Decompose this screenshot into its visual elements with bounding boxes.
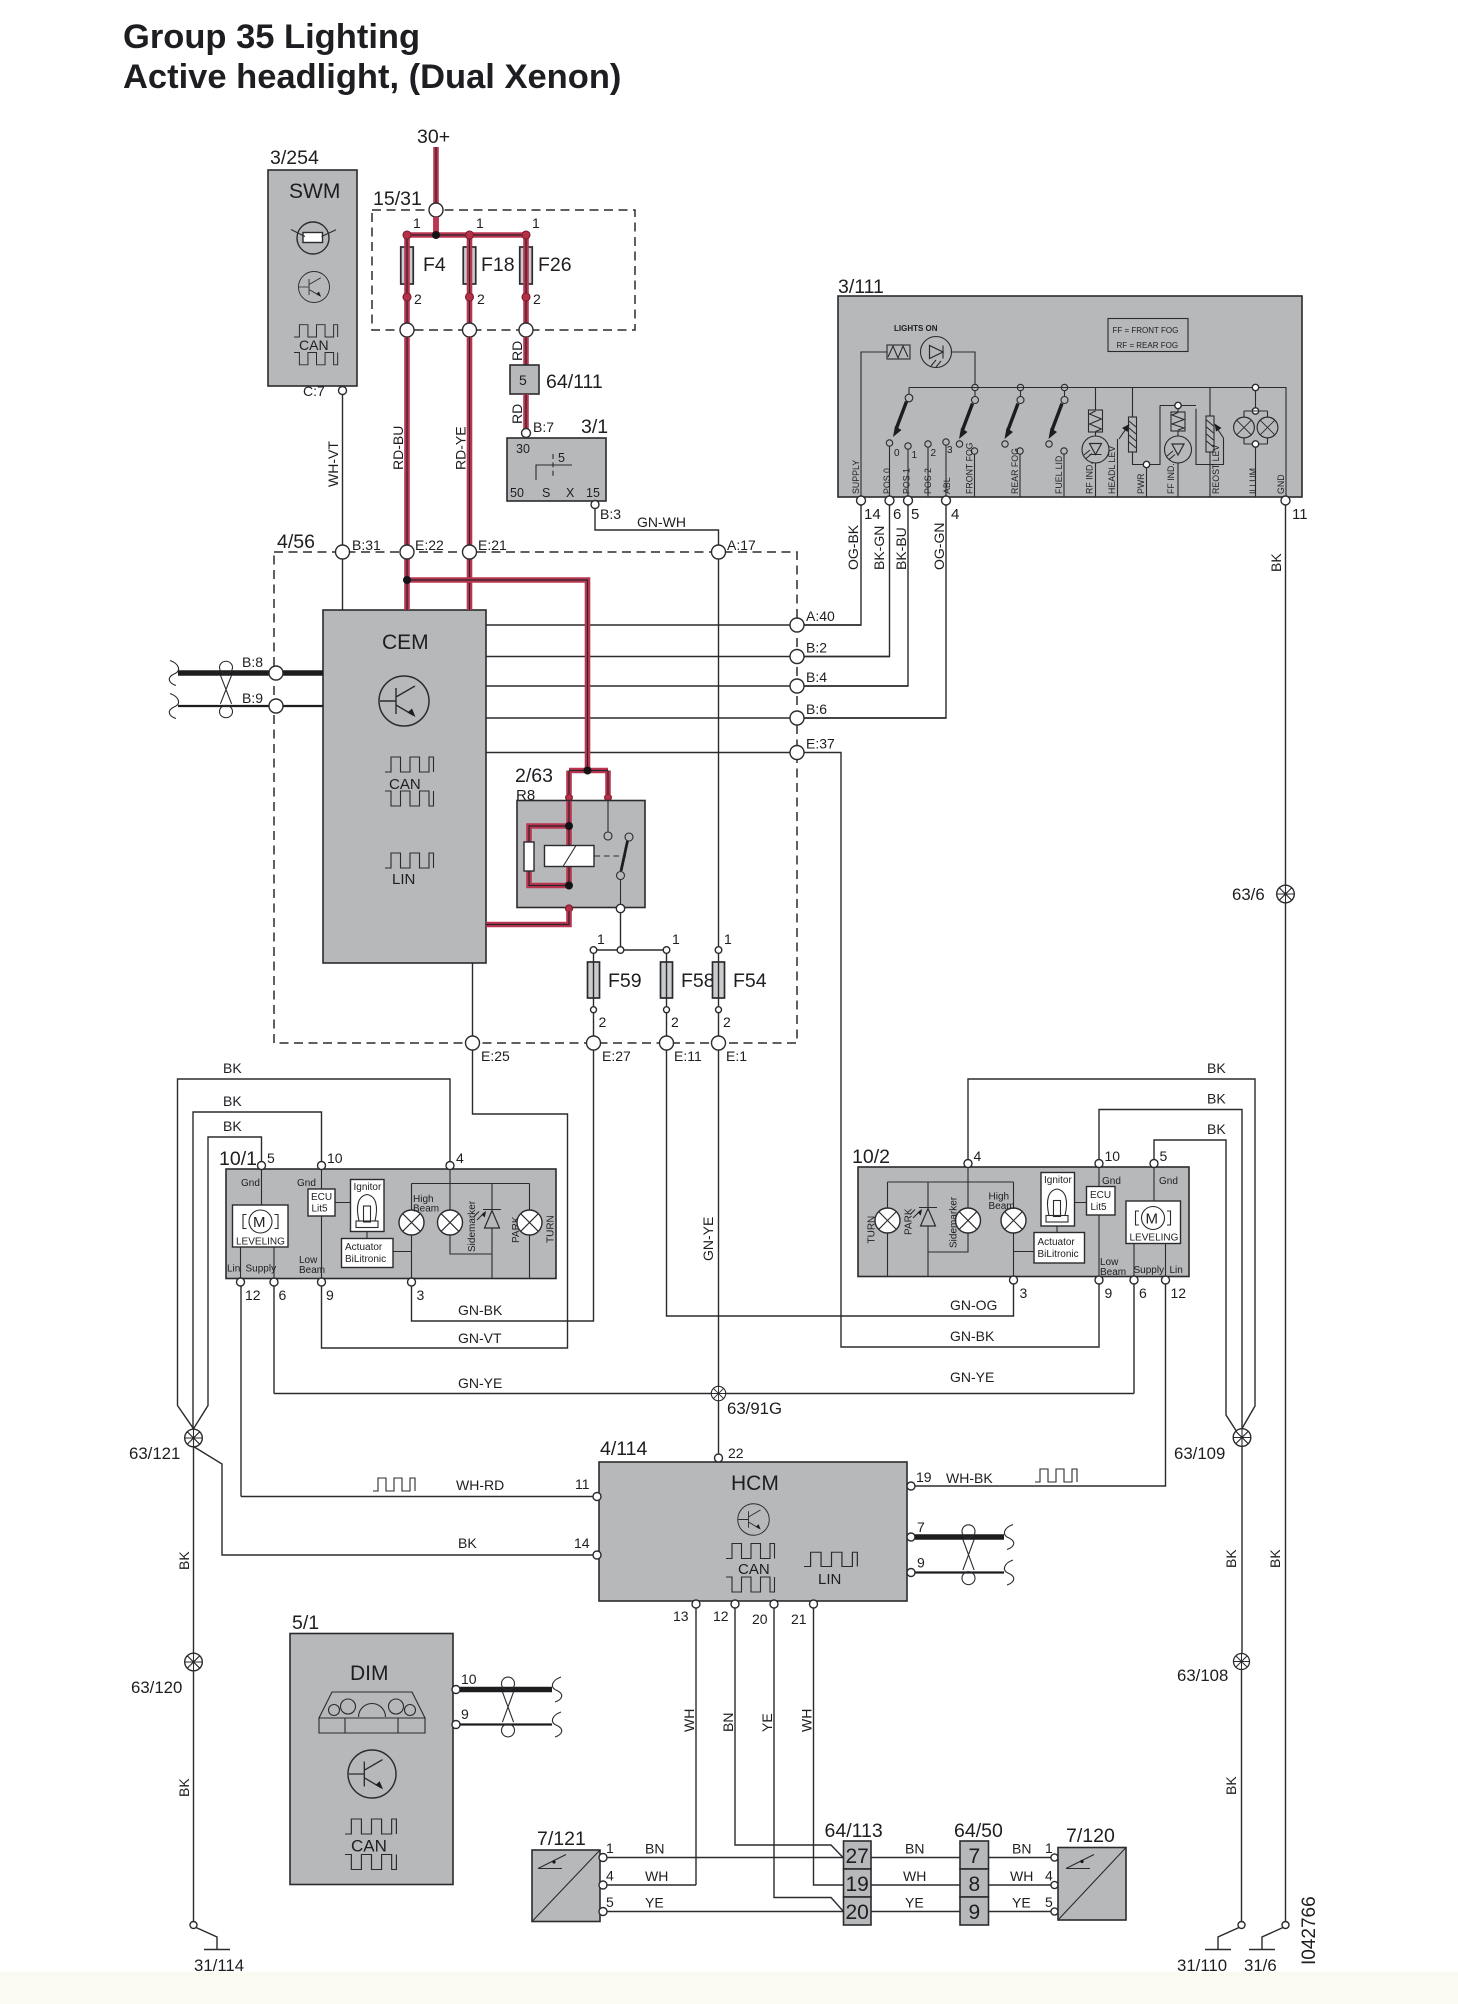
- svg-text:Gnd: Gnd: [1159, 1176, 1178, 1187]
- svg-text:63/6: 63/6: [1232, 885, 1265, 904]
- fuse F54: [713, 962, 725, 998]
- svg-text:1: 1: [476, 215, 484, 231]
- node E:25: [466, 1036, 480, 1050]
- svg-text:BN: BN: [720, 1713, 736, 1732]
- svg-text:5: 5: [519, 372, 527, 388]
- svg-text:Lin: Lin: [1170, 1265, 1183, 1276]
- park diode: [483, 1209, 501, 1211]
- svg-text:CAN: CAN: [351, 1837, 387, 1856]
- svg-text:3/254: 3/254: [270, 147, 319, 169]
- svg-text:B:3: B:3: [600, 506, 621, 522]
- svg-text:12: 12: [245, 1287, 261, 1303]
- svg-text:5: 5: [558, 451, 565, 465]
- wire WH-VT from SWM C:7 to CEM B:31: [342, 395, 344, 546]
- svg-text:YE: YE: [1012, 1895, 1031, 1911]
- junction 63/120: [185, 1653, 203, 1671]
- svg-text:RF IND.: RF IND.: [1085, 462, 1095, 494]
- CEM CAN symbol: [385, 757, 434, 772]
- svg-text:B:6: B:6: [806, 701, 827, 717]
- svg-text:4/56: 4/56: [277, 531, 315, 553]
- wire RD-YE F18 to E:21: [467, 337, 473, 545]
- switch SUPPLY/POS: [908, 388, 910, 395]
- headlamp right 10/2: [852, 1146, 1189, 1278]
- fuse F26: [520, 247, 533, 284]
- svg-text:21: 21: [791, 1611, 807, 1627]
- svg-text:E:21: E:21: [478, 537, 507, 553]
- svg-text:9: 9: [969, 1901, 981, 1924]
- svg-text:2: 2: [723, 1014, 731, 1030]
- svg-text:1: 1: [1045, 1840, 1053, 1856]
- node E:37: [790, 746, 804, 760]
- svg-text:GN-OG: GN-OG: [950, 1297, 997, 1313]
- node B:31: [336, 545, 350, 559]
- node E:11: [660, 1036, 674, 1050]
- svg-text:X: X: [566, 486, 575, 500]
- svg-text:5: 5: [1045, 1894, 1053, 1910]
- svg-text:B:9: B:9: [242, 690, 263, 706]
- svg-text:50: 50: [510, 486, 524, 500]
- svg-text:GN-VT: GN-VT: [458, 1330, 502, 1346]
- CEM LIN symbol: [385, 853, 434, 868]
- SWM CAN symbol: [294, 325, 338, 337]
- FF/RF legend box: [1108, 319, 1188, 352]
- svg-text:BN: BN: [645, 1841, 664, 1857]
- HCM bottom pins: [692, 1600, 700, 1608]
- DIM transistor icon: [348, 1750, 396, 1798]
- svg-text:1: 1: [532, 215, 540, 231]
- svg-text:22: 22: [728, 1445, 744, 1461]
- wire RD-BU F4 to E:22: [404, 337, 410, 545]
- svg-text:64/113: 64/113: [825, 1820, 883, 1842]
- svg-text:Sidemarker: Sidemarker: [467, 1200, 478, 1252]
- svg-text:BN: BN: [1012, 1841, 1031, 1857]
- position sensor 7/121: [532, 1828, 600, 1922]
- svg-text:BK: BK: [176, 1778, 192, 1797]
- svg-text:E:1: E:1: [726, 1048, 747, 1064]
- connector 64/111 pin 5: [510, 365, 539, 394]
- red wire relay to CEM: [486, 911, 569, 925]
- svg-text:F58: F58: [681, 970, 715, 992]
- svg-text:Actuator: Actuator: [345, 1242, 383, 1253]
- svg-text:SWM: SWM: [289, 180, 340, 203]
- ground wires BK left headlamp: [178, 1079, 451, 1429]
- Actuator BiLitronic box: [1034, 1233, 1085, 1264]
- turn lamp: [875, 1208, 900, 1233]
- ground 31/114: [190, 1922, 230, 1950]
- svg-text:BK: BK: [1207, 1121, 1226, 1137]
- relay coil red loop: [529, 801, 569, 886]
- svg-text:HCM: HCM: [731, 1472, 779, 1495]
- svg-text:PWR: PWR: [1136, 473, 1146, 494]
- wire BN 7/121 to 64/113: [607, 1857, 844, 1859]
- svg-text:LIN: LIN: [818, 1571, 841, 1588]
- svg-text:Gnd: Gnd: [241, 1178, 260, 1189]
- svg-text:WH-RD: WH-RD: [456, 1477, 504, 1493]
- node E:21: [463, 545, 477, 559]
- svg-text:19: 19: [916, 1469, 932, 1485]
- svg-text:20: 20: [846, 1901, 869, 1924]
- DIM module 5/1: [290, 1612, 453, 1885]
- wire BK to HCM 14: [194, 1447, 594, 1556]
- ECU Lit5 box: [1087, 1187, 1116, 1216]
- svg-text:BK: BK: [1268, 553, 1284, 572]
- svg-text:BK: BK: [223, 1118, 242, 1134]
- twisted pair B:8/B:9: [169, 654, 323, 719]
- wire E:37 to right headlamp low beam: [804, 753, 1099, 1348]
- svg-text:B:2: B:2: [806, 640, 827, 656]
- svg-text:2: 2: [533, 291, 541, 307]
- svg-text:6: 6: [893, 506, 901, 523]
- sidemarker lamp: [956, 1208, 981, 1233]
- svg-text:14: 14: [574, 1535, 590, 1551]
- svg-text:GN-YE: GN-YE: [950, 1369, 994, 1385]
- wire BK pin11 down right side: [1285, 505, 1287, 1921]
- svg-text:E:25: E:25: [481, 1048, 510, 1064]
- svg-text:FF = FRONT FOG: FF = FRONT FOG: [1113, 326, 1179, 335]
- relay bottom pins: [565, 905, 572, 912]
- svg-text:S: S: [542, 486, 550, 500]
- svg-text:LEVELING: LEVELING: [236, 1237, 285, 1248]
- svg-text:5: 5: [267, 1150, 275, 1166]
- node E:22: [400, 545, 414, 559]
- wire RD 64/111 to 3/1 B:7: [523, 394, 529, 429]
- svg-text:OG-GN: OG-GN: [931, 523, 947, 570]
- node B:4: [790, 679, 804, 693]
- fuse F18: [463, 247, 476, 284]
- svg-text:15/31: 15/31: [373, 188, 422, 210]
- svg-text:POS 2: POS 2: [923, 468, 933, 494]
- svg-text:FF IND.: FF IND.: [1166, 463, 1176, 494]
- switch REAR FOG: [1017, 384, 1023, 390]
- wire WH-BK lin right: [915, 1284, 1166, 1486]
- wire OG-BK pin14 to A:40: [804, 505, 861, 625]
- svg-text:F4: F4: [423, 254, 446, 276]
- high beam lamp: [399, 1210, 424, 1235]
- svg-text:10: 10: [461, 1671, 477, 1687]
- svg-text:3: 3: [1020, 1285, 1028, 1301]
- node B:8: [269, 666, 283, 680]
- svg-text:B:7: B:7: [533, 419, 554, 435]
- junction 63/91G: [711, 1386, 725, 1400]
- svg-text:C:7: C:7: [303, 383, 325, 399]
- svg-text:CEM: CEM: [382, 631, 429, 654]
- svg-text:4: 4: [456, 1150, 464, 1166]
- svg-text:9: 9: [917, 1555, 925, 1571]
- svg-text:BK: BK: [458, 1535, 477, 1551]
- svg-text:E:37: E:37: [806, 736, 835, 752]
- svg-text:31/110: 31/110: [1177, 1956, 1227, 1975]
- wire WH-RD lin left: [241, 1286, 593, 1497]
- svg-text:1: 1: [672, 931, 680, 947]
- svg-text:RD: RD: [509, 341, 525, 361]
- wire WH 7/121 to HCM 13: [607, 1884, 696, 1886]
- node B:2: [790, 650, 804, 664]
- svg-text:B:4: B:4: [806, 669, 827, 685]
- svg-text:BK: BK: [1223, 1549, 1239, 1568]
- fuse F4: [401, 247, 414, 284]
- red wire CEM feed to relay 2/63: [407, 580, 608, 794]
- svg-text:2: 2: [414, 291, 422, 307]
- svg-text:RD-BU: RD-BU: [390, 426, 406, 470]
- svg-text:E:22: E:22: [415, 537, 444, 553]
- DIM CAN symbol: [345, 1819, 396, 1834]
- svg-text:F18: F18: [481, 254, 515, 276]
- svg-text:A:40: A:40: [806, 608, 835, 624]
- svg-text:WH: WH: [645, 1868, 668, 1884]
- wire E:27 to high beam left (GN-BK): [412, 1050, 594, 1321]
- svg-text:E:11: E:11: [674, 1048, 702, 1064]
- svg-text:10: 10: [327, 1150, 343, 1166]
- svg-text:2: 2: [599, 1014, 607, 1030]
- svg-text:BK: BK: [223, 1060, 242, 1076]
- svg-text:E:27: E:27: [602, 1048, 631, 1064]
- fuse bottom pins: [407, 246, 526, 323]
- HCM module 4/114: [599, 1438, 907, 1601]
- svg-text:1: 1: [912, 450, 918, 461]
- svg-text:2/63: 2/63: [515, 765, 553, 787]
- relay 2/63 R8: [515, 765, 645, 908]
- svg-text:RD: RD: [509, 404, 525, 424]
- svg-text:WH-BK: WH-BK: [946, 1470, 993, 1486]
- internal ground bus: [909, 388, 1286, 498]
- svg-text:WH: WH: [903, 1868, 926, 1884]
- svg-text:LIGHTS ON: LIGHTS ON: [894, 324, 938, 333]
- svg-text:TURN: TURN: [546, 1215, 557, 1243]
- svg-text:3/1: 3/1: [581, 416, 608, 438]
- node B:6: [790, 711, 804, 725]
- relay resistor: [524, 842, 534, 871]
- svg-text:BK: BK: [223, 1093, 242, 1109]
- svg-text:BiLitronic: BiLitronic: [345, 1254, 386, 1265]
- svg-text:11: 11: [1292, 506, 1308, 523]
- Actuator BiLitronic box: [342, 1239, 394, 1268]
- svg-text:ABL: ABL: [942, 477, 952, 494]
- switch FRONT FOG: [972, 384, 978, 390]
- red wire RD-BU E:22 into CEM: [404, 559, 410, 610]
- svg-text:Lin: Lin: [227, 1264, 240, 1275]
- relay switch: [607, 801, 609, 832]
- svg-text:1: 1: [606, 1840, 614, 1856]
- svg-text:4: 4: [951, 506, 959, 523]
- sidemarker lamp: [438, 1210, 463, 1235]
- svg-text:63/109: 63/109: [1174, 1444, 1225, 1463]
- svg-text:63/121: 63/121: [129, 1444, 180, 1463]
- RF IND led: [1095, 388, 1097, 498]
- svg-text:ECU: ECU: [311, 1192, 332, 1203]
- wire E:25 to low beam left (GN-VT): [322, 1050, 568, 1348]
- svg-text:M: M: [253, 1214, 266, 1231]
- DIM pins 10/9 twisted pair: [452, 1686, 460, 1694]
- turn lamp: [517, 1210, 542, 1235]
- svg-text:Supply: Supply: [246, 1264, 277, 1275]
- red fuse bus: [407, 217, 526, 247]
- svg-text:14: 14: [864, 506, 881, 523]
- Ignitor with xenon bulb: [351, 1180, 385, 1232]
- wire RD F26 to 64/111: [523, 337, 529, 365]
- svg-text:4: 4: [1045, 1868, 1053, 1884]
- svg-text:BK: BK: [1267, 1549, 1283, 1568]
- svg-text:19: 19: [846, 1873, 869, 1896]
- svg-text:BK: BK: [1223, 1776, 1239, 1795]
- svg-text:Beam: Beam: [989, 1201, 1015, 1212]
- junction 63/108: [1241, 1670, 1243, 1922]
- ground wires BK right headlamp: [968, 1079, 1255, 1429]
- wire BK-GN pin6 to B:2: [804, 505, 890, 657]
- svg-text:10: 10: [1105, 1148, 1121, 1164]
- svg-text:FUEL LID: FUEL LID: [1054, 456, 1064, 494]
- svg-text:13: 13: [673, 1608, 689, 1624]
- svg-text:30+: 30+: [417, 126, 450, 148]
- position sensor 7/120: [1058, 1825, 1126, 1920]
- svg-text:1: 1: [724, 931, 732, 947]
- svg-text:63/108: 63/108: [1177, 1666, 1228, 1685]
- junction 63/121: [185, 1429, 203, 1447]
- svg-text:POS 0: POS 0: [882, 468, 892, 494]
- svg-text:TURN: TURN: [867, 1216, 878, 1244]
- HCM twisted pair pins 7/9: [907, 1533, 915, 1541]
- 3/111 bottom pins: [857, 496, 866, 505]
- svg-text:10/1: 10/1: [219, 1148, 257, 1170]
- svg-text:31/114: 31/114: [194, 1956, 244, 1975]
- svg-text:WH: WH: [1010, 1868, 1033, 1884]
- node B:9: [269, 699, 283, 713]
- svg-text:6: 6: [279, 1287, 287, 1303]
- svg-text:12: 12: [1171, 1285, 1187, 1301]
- svg-text:CAN: CAN: [299, 337, 329, 353]
- svg-text:BiLitronic: BiLitronic: [1038, 1249, 1079, 1260]
- svg-text:7/121: 7/121: [537, 1828, 586, 1850]
- svg-text:GN-BK: GN-BK: [950, 1328, 995, 1344]
- SWM lamp-monitor icon: [297, 222, 329, 254]
- svg-text:7/120: 7/120: [1066, 1825, 1115, 1847]
- 10/1 pins: [258, 1162, 266, 1170]
- svg-text:64/50: 64/50: [954, 1820, 1003, 1842]
- svg-text:4/114: 4/114: [600, 1438, 648, 1460]
- svg-text:ILLUM: ILLUM: [1248, 468, 1258, 494]
- high beam lamp: [1001, 1208, 1026, 1233]
- svg-text:7: 7: [969, 1845, 981, 1868]
- wire B:31 into CEM: [342, 559, 344, 610]
- svg-text:3: 3: [947, 445, 953, 456]
- leveling motor: [1126, 1201, 1181, 1244]
- svg-text:3/111: 3/111: [838, 276, 884, 298]
- svg-text:11: 11: [575, 1476, 590, 1492]
- FF IND led: [1150, 406, 1196, 465]
- svg-text:Ignitor: Ignitor: [1044, 1175, 1072, 1186]
- svg-text:LIN: LIN: [392, 871, 415, 888]
- headlamp left 10/1: [219, 1148, 557, 1279]
- red wire RD-YE E:21 into CEM: [467, 559, 473, 610]
- REOST LEV rheostat: [1209, 388, 1211, 498]
- ground 31/6: [1249, 1922, 1289, 1950]
- svg-text:BK: BK: [1207, 1091, 1226, 1107]
- svg-text:CAN: CAN: [738, 1561, 770, 1578]
- svg-text:BK-BU: BK-BU: [893, 527, 909, 570]
- svg-text:GND: GND: [1276, 474, 1286, 494]
- relay coil: [545, 846, 595, 867]
- ground 31/110: [1205, 1922, 1245, 1950]
- svg-text:4: 4: [606, 1868, 614, 1884]
- wire YE 7/121 to 64/113: [607, 1911, 844, 1913]
- SWM module 3/254: [268, 147, 357, 399]
- node E:1: [712, 1036, 726, 1050]
- svg-text:4: 4: [974, 1148, 982, 1164]
- svg-text:Group 35 Lighting: Group 35 Lighting: [123, 18, 420, 56]
- svg-text:5: 5: [1160, 1148, 1168, 1164]
- internal wires: [888, 1167, 1166, 1277]
- svg-text:WH: WH: [681, 1709, 697, 1732]
- leveling motor: [233, 1205, 289, 1247]
- svg-text:HEADL LEV: HEADL LEV: [1107, 446, 1117, 494]
- svg-text:REAR FOG: REAR FOG: [1010, 448, 1020, 494]
- node E:27: [587, 1036, 601, 1050]
- DIM cluster icon: [319, 1692, 425, 1733]
- ILLUM lamps: [1252, 384, 1258, 390]
- fuse F58: [661, 962, 673, 998]
- svg-text:YE: YE: [645, 1895, 664, 1911]
- HCM pin wires down: [696, 1608, 844, 1912]
- svg-text:12: 12: [713, 1608, 729, 1624]
- ignition switch 3/1: [507, 416, 608, 509]
- svg-text:B:8: B:8: [242, 654, 263, 670]
- node A:40: [790, 618, 804, 632]
- wire OG-GN pin4 to B:6: [804, 505, 946, 718]
- svg-text:3: 3: [417, 1287, 425, 1303]
- Ignitor with xenon bulb: [1041, 1173, 1075, 1227]
- svg-text:OG-BK: OG-BK: [845, 524, 861, 570]
- svg-text:Lit5: Lit5: [1091, 1202, 1108, 1213]
- ECU Lit5 box: [308, 1189, 335, 1216]
- svg-text:Actuator: Actuator: [1038, 1237, 1076, 1248]
- wire relay output to fuses: [594, 913, 667, 950]
- CEM transistor icon: [379, 676, 429, 726]
- svg-text:WH-VT: WH-VT: [325, 441, 341, 487]
- svg-text:2: 2: [477, 291, 485, 307]
- svg-text:ECU: ECU: [1090, 1190, 1111, 1201]
- svg-text:F59: F59: [608, 970, 642, 992]
- svg-text:5/1: 5/1: [292, 1612, 319, 1634]
- svg-text:RF = REAR FOG: RF = REAR FOG: [1117, 341, 1179, 350]
- svg-text:2: 2: [671, 1014, 679, 1030]
- svg-text:BK-GN: BK-GN: [871, 526, 887, 570]
- svg-text:20: 20: [752, 1611, 768, 1627]
- svg-text:GN-WH: GN-WH: [637, 514, 686, 530]
- wire E:11 to high beam right (GN-OG): [667, 1050, 1014, 1316]
- svg-text:PARK: PARK: [904, 1208, 915, 1235]
- left BK trunk 63/121 to ground: [193, 1447, 195, 1653]
- svg-text:15: 15: [586, 486, 600, 500]
- svg-text:Sidemarker: Sidemarker: [949, 1196, 960, 1248]
- svg-text:9: 9: [461, 1706, 469, 1722]
- wires 64/50 to 7/120: [989, 1858, 1052, 1912]
- svg-text:5: 5: [911, 506, 919, 523]
- svg-text:Ignitor: Ignitor: [354, 1182, 382, 1193]
- svg-text:27: 27: [846, 1845, 869, 1868]
- svg-text:Beam: Beam: [299, 1265, 325, 1276]
- svg-text:LEVELING: LEVELING: [1130, 1233, 1179, 1244]
- svg-text:I042766: I042766: [1299, 1896, 1320, 1965]
- svg-text:63/120: 63/120: [131, 1678, 182, 1697]
- junction 63/109: [1241, 1447, 1243, 1654]
- svg-text:0: 0: [894, 448, 900, 459]
- svg-text:B:31: B:31: [352, 537, 381, 553]
- svg-text:30: 30: [516, 442, 530, 456]
- svg-text:Supply: Supply: [1134, 1265, 1165, 1276]
- park diode: [919, 1207, 937, 1209]
- svg-text:F54: F54: [733, 970, 767, 992]
- 10/2 pins: [964, 1160, 972, 1168]
- SWM transistor icon: [299, 272, 330, 303]
